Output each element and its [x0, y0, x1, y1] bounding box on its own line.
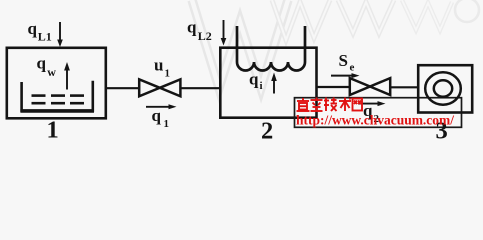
- arrow up (q_i): [273, 80, 275, 94]
- chimneys and scalloped liquid surface: [237, 26, 305, 70]
- box 1 (liquid reservoir): [7, 48, 106, 119]
- svg-text:q: q: [28, 19, 38, 38]
- svg-text:1: 1: [165, 68, 171, 80]
- svg-text:q: q: [249, 69, 259, 88]
- tank (open container inside box 1): [22, 81, 93, 111]
- char 技: [324, 98, 337, 112]
- liquid dashes row 1: [32, 94, 85, 97]
- char 术: [339, 98, 351, 112]
- char 空: [311, 98, 323, 112]
- svg-text:i: i: [260, 80, 263, 92]
- arrow right (q_2): [358, 103, 380, 105]
- svg-text:L2: L2: [198, 29, 212, 43]
- svg-text:e: e: [350, 62, 355, 74]
- watermark (faint grey): [192, 0, 479, 88]
- tank thick bottom: [20, 109, 94, 112]
- arrow down (q_L2): [223, 20, 225, 39]
- wire box 2 to valve Se: [317, 86, 351, 88]
- char 真: [297, 98, 310, 111]
- pump 3 (box): [418, 65, 472, 112]
- arrow right (q_1): [146, 106, 171, 108]
- svg-text:1: 1: [164, 118, 170, 130]
- liquid dashes row 2: [32, 102, 85, 105]
- svg-text:1: 1: [47, 117, 59, 144]
- svg-text:S: S: [339, 51, 348, 70]
- pump outer circle: [425, 72, 461, 104]
- svg-text:w: w: [47, 65, 56, 79]
- svg-text:q: q: [152, 106, 162, 125]
- valve Se (bowtie): [350, 78, 390, 95]
- red watermark: 真空技术网 (simplified glyph strokes): [297, 98, 363, 112]
- watermark frame rectangle: [295, 98, 462, 128]
- svg-text:2: 2: [261, 118, 273, 145]
- arrow up (q_w): [66, 70, 68, 90]
- svg-text:http://www.chvacuum.com/: http://www.chvacuum.com/: [296, 112, 454, 127]
- wire valve Se to pump 3: [390, 86, 418, 88]
- box 2 (evaporation chamber): [220, 48, 316, 118]
- pump inner circle: [434, 80, 452, 96]
- wire valve u1 to box 2: [180, 87, 221, 89]
- svg-text:L1: L1: [38, 30, 52, 44]
- svg-text:u: u: [154, 56, 163, 75]
- arrow right (S_e): [331, 75, 354, 77]
- wire box1 to valve u1: [106, 87, 140, 89]
- valve U1 (bowtie): [139, 79, 180, 96]
- svg-text:q: q: [37, 54, 47, 73]
- char 网: [353, 99, 363, 111]
- svg-text:q: q: [187, 18, 197, 37]
- arrow down (q_L1): [59, 22, 61, 40]
